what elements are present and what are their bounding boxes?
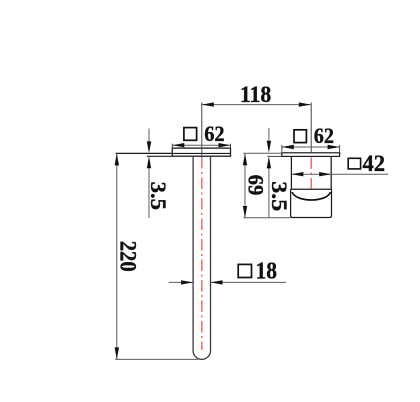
svg-text:118: 118	[240, 82, 272, 108]
svg-text:3.5: 3.5	[146, 182, 171, 210]
svg-text:3.5: 3.5	[267, 181, 292, 211]
svg-text:18: 18	[256, 258, 278, 285]
svg-text:42: 42	[363, 151, 386, 177]
svg-text:220: 220	[114, 241, 140, 272]
svg-text:62: 62	[204, 121, 224, 146]
svg-text:69: 69	[244, 175, 269, 196]
svg-text:62: 62	[314, 123, 334, 148]
